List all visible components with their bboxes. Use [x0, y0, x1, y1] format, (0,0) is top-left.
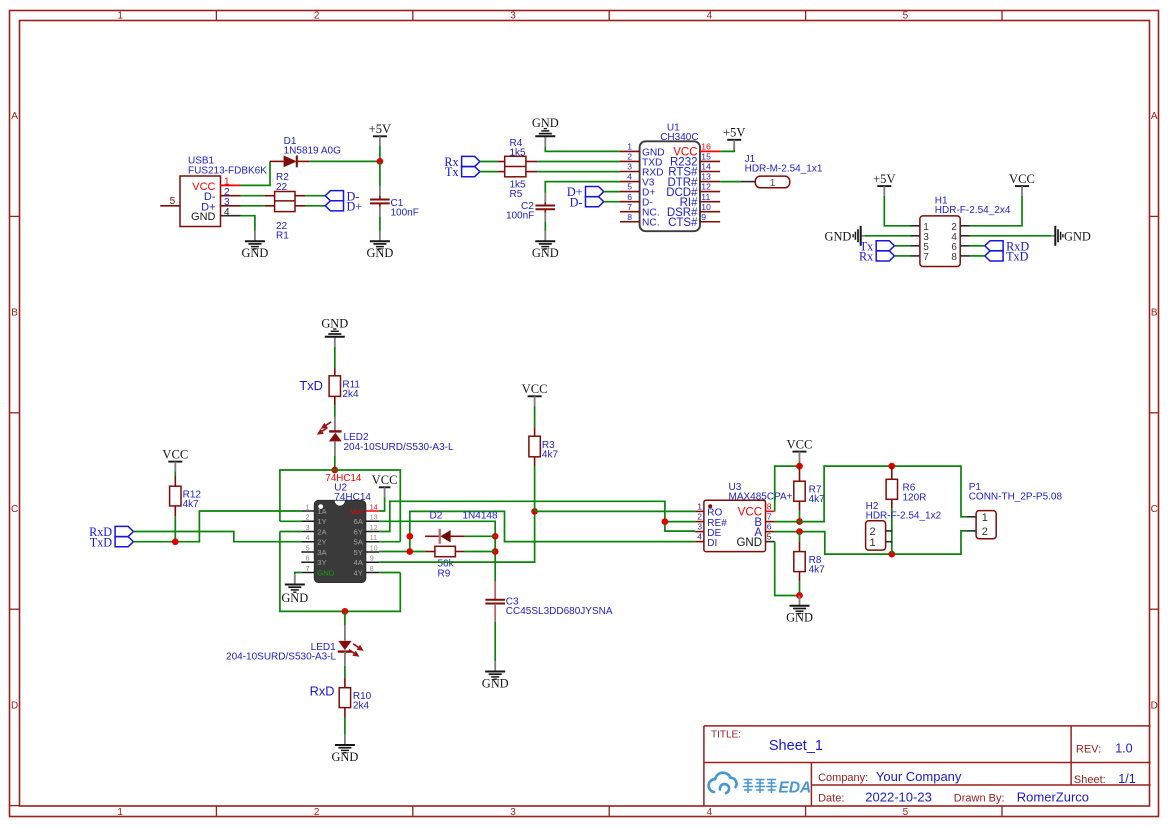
- wire R1 to D+ flag: [305, 205, 325, 207]
- wire USB D- to R2: [241, 195, 265, 197]
- svg-text:8: 8: [951, 252, 957, 263]
- LED LED1 204-10SURD/S530-A3-L: [338, 626, 364, 666]
- svg-text:R1: R1: [276, 231, 289, 242]
- resistor R10 2k4: [339, 677, 371, 717]
- svg-text:1: 1: [627, 142, 632, 152]
- svg-text:GND: GND: [532, 116, 559, 130]
- svg-text:EDA: EDA: [779, 780, 812, 797]
- svg-text:1: 1: [982, 512, 988, 524]
- U2 pin 7 (GND): [301, 566, 334, 577]
- USB1 pin 2 (D-): [221, 187, 241, 198]
- svg-text:GND: GND: [532, 246, 559, 260]
- U3 pin 3 (DE): [695, 522, 721, 539]
- svg-text:7: 7: [627, 202, 632, 212]
- svg-text:R9: R9: [438, 568, 451, 579]
- svg-text:1k5: 1k5: [510, 147, 527, 158]
- wire D+ flag to U1: [604, 191, 620, 193]
- svg-text:GND: GND: [281, 591, 308, 605]
- wire RO line: [535, 510, 696, 512]
- svg-text:1: 1: [306, 504, 310, 511]
- svg-text:GND: GND: [1064, 229, 1091, 243]
- svg-text:DI: DI: [707, 538, 717, 549]
- svg-text:2A: 2A: [317, 527, 327, 536]
- svg-text:D: D: [11, 700, 18, 711]
- junction D2 right: [492, 533, 499, 540]
- U2 pin 8 (4Y): [354, 566, 380, 577]
- U1 pin 6 (D-): [620, 192, 653, 209]
- svg-text:GND: GND: [736, 537, 762, 549]
- svg-text:4: 4: [697, 532, 702, 542]
- svg-text:100nF: 100nF: [506, 211, 534, 222]
- svg-text:VCC: VCC: [372, 473, 398, 487]
- ground GND (H1 left): [825, 226, 865, 246]
- wire Rx flag to H1 pin7: [895, 255, 911, 257]
- resistor pack R2/R1 22: [265, 172, 305, 241]
- svg-text:2: 2: [697, 512, 702, 522]
- wire 5A pin stub wire: [379, 541, 400, 543]
- IC U3 MAX485CPA+: [704, 482, 793, 552]
- svg-text:8: 8: [767, 502, 772, 512]
- svg-text:204-10SURD/S530-A3-L: 204-10SURD/S530-A3-L: [344, 442, 454, 453]
- U2 pin 14 (Vcc): [350, 504, 379, 515]
- wire Rx flag to R4: [480, 161, 498, 163]
- svg-text:GND: GND: [191, 211, 216, 223]
- svg-text:3: 3: [510, 10, 516, 21]
- U1 pin 3 (RXD): [620, 162, 664, 179]
- svg-text:10: 10: [701, 202, 711, 212]
- svg-text:TxD: TxD: [1006, 250, 1029, 264]
- wire D1 cathode to +5V node: [310, 160, 380, 162]
- junction R8/GND: [796, 592, 803, 599]
- junction +5V node: [377, 158, 384, 165]
- U3 pin 6 (A): [754, 522, 774, 539]
- net flag D+ (USB side): [325, 199, 362, 213]
- svg-text:GND: GND: [331, 750, 358, 764]
- svg-text:+5V: +5V: [873, 172, 896, 186]
- svg-text:RomerZurco: RomerZurco: [1017, 789, 1089, 804]
- wire 2A pin stub wire: [280, 531, 301, 533]
- U1 pin 11 (RI#): [680, 192, 721, 209]
- ground GND (R11, inverted): [321, 316, 348, 347]
- net flag D- (USB side): [325, 189, 359, 203]
- svg-text:VCC: VCC: [787, 437, 813, 451]
- U1 pin 7 (NC.): [620, 202, 660, 219]
- svg-text:GND: GND: [241, 246, 268, 260]
- svg-text:2: 2: [306, 515, 310, 522]
- svg-text:8: 8: [370, 566, 374, 573]
- svg-text:6: 6: [306, 556, 310, 563]
- svg-text:7: 7: [923, 252, 928, 263]
- diode D2 1N4148: [425, 510, 498, 544]
- wire R8 to GND node: [799, 581, 801, 595]
- wire U2 Vcc pin14: [379, 497, 385, 511]
- svg-text:120R: 120R: [903, 492, 927, 503]
- wire H1 pin8 to TxD flag: [970, 255, 985, 257]
- svg-text:2: 2: [314, 10, 320, 21]
- svg-text:16: 16: [701, 142, 711, 152]
- svg-text:5: 5: [627, 182, 632, 192]
- ground GND (C2): [532, 231, 559, 260]
- svg-text:MAX485CPA+: MAX485CPA+: [729, 492, 793, 503]
- R9 labels: [438, 559, 455, 580]
- ground GND (U3): [786, 596, 813, 625]
- svg-text:5: 5: [306, 545, 310, 552]
- title block: [704, 726, 1151, 806]
- wire top rail 1Y: [280, 470, 400, 542]
- resistor R3 4k7: [529, 427, 559, 466]
- junction VCC/R7: [796, 463, 803, 470]
- U1 pin 14 (RTS#): [668, 162, 720, 179]
- U2 pin 13 (6A): [354, 515, 380, 526]
- svg-text:7: 7: [767, 512, 772, 522]
- svg-text:HDR-F-2.54_1x2: HDR-F-2.54_1x2: [866, 511, 942, 522]
- power VCC (R3): [522, 382, 548, 406]
- net flag TxD (U2 side): [90, 535, 134, 549]
- wire D2 to right node: [465, 535, 496, 537]
- LED LED2 204-10SURD/S530-A3-L: [317, 417, 342, 456]
- svg-text:CC45SL3DD680JYSNA: CC45SL3DD680JYSNA: [506, 606, 613, 617]
- capacitor C1 100nF: [370, 186, 390, 216]
- svg-text:13: 13: [701, 172, 711, 182]
- wire bottom rail 4Y: [280, 532, 400, 612]
- wire 1Y pin stub wire: [280, 520, 301, 522]
- svg-text:A: A: [1151, 111, 1158, 122]
- wire R4 to U1 TXD: [538, 161, 620, 163]
- svg-text:9: 9: [701, 212, 706, 222]
- svg-text:Sheet_1: Sheet_1: [769, 738, 823, 754]
- wire C2 to GND: [544, 222, 546, 231]
- junction R8/A: [796, 528, 803, 535]
- svg-text:2: 2: [627, 152, 632, 162]
- USB1 pin 3 (D+): [221, 197, 241, 208]
- svg-text:5: 5: [903, 10, 909, 21]
- ground GND (U1 pin1, inverted): [532, 116, 559, 147]
- svg-text:B: B: [11, 308, 18, 319]
- net flag RxD (U2 side): [89, 525, 133, 539]
- junction R7/B: [796, 518, 803, 525]
- wire USB GND pin: [241, 216, 255, 231]
- svg-text:HDR-M-2.54_1x1: HDR-M-2.54_1x1: [745, 164, 823, 175]
- svg-text:4Y: 4Y: [354, 568, 363, 577]
- wire VCC to R12: [174, 471, 176, 475]
- connector H1 HDR-F-2.54_2x4: [910, 196, 1011, 267]
- svg-text:D+: D+: [347, 199, 363, 213]
- wire LED2 to top rail: [334, 456, 336, 470]
- USB1 pin 1 (VCC): [221, 177, 241, 188]
- svg-text:7: 7: [306, 566, 310, 573]
- svg-text:3: 3: [627, 162, 632, 172]
- U1 pin 5 (D+): [620, 182, 655, 199]
- svg-text:C: C: [1151, 504, 1158, 515]
- svg-text:9: 9: [370, 556, 374, 563]
- U1 pin 2 (TXD): [620, 152, 662, 169]
- U1 pin 15 (R232): [670, 152, 720, 169]
- EasyEDA logo: [709, 773, 812, 797]
- svg-text:12: 12: [370, 525, 378, 532]
- svg-text:13: 13: [370, 515, 378, 522]
- svg-text:1N4148: 1N4148: [463, 510, 498, 521]
- junction D2 left: [406, 533, 413, 540]
- wire GND to R11: [334, 347, 336, 368]
- wire 6Y to DE: [379, 501, 695, 531]
- wire USB D+ to R1: [241, 205, 265, 207]
- wire R11 to LED2: [334, 406, 336, 417]
- wire RE# tap: [665, 521, 695, 523]
- svg-text:2: 2: [314, 807, 320, 818]
- svg-text:2Y: 2Y: [317, 538, 326, 547]
- junction R6 top: [888, 463, 895, 470]
- U1 pin 16 (VCC): [673, 142, 720, 159]
- svg-text:CH340C: CH340C: [660, 132, 698, 143]
- wire R5 to U1 RXD: [538, 171, 620, 173]
- net flag Rx (H1 pin7): [859, 250, 895, 264]
- wire left RC vertical to DI: [410, 511, 696, 551]
- wire R6 to A loop: [891, 509, 893, 554]
- junction RE#/DE wire: [662, 518, 669, 525]
- wire R10 to GND: [344, 718, 346, 735]
- power VCC (U2): [372, 473, 398, 497]
- power VCC (R12): [162, 447, 188, 471]
- svg-text:3: 3: [697, 522, 702, 532]
- svg-text:12: 12: [701, 182, 711, 192]
- wire RxD flag to U2 2Y: [133, 532, 301, 542]
- svg-text:C: C: [11, 504, 18, 515]
- svg-text:5: 5: [903, 807, 909, 818]
- wire 6A to RC node: [379, 521, 495, 536]
- U2 pin 12 (6Y): [354, 525, 380, 536]
- power VCC (U3): [787, 437, 813, 461]
- svg-text:1: 1: [117, 10, 123, 21]
- IC U1 CH340C: [640, 122, 700, 231]
- net flag Tx (to R5): [445, 165, 480, 179]
- resistor pack R4/R5 1k5: [497, 138, 537, 200]
- svg-text:VCC: VCC: [162, 447, 188, 461]
- resistor R6 120R: [886, 466, 926, 509]
- svg-text:5: 5: [170, 196, 176, 207]
- svg-text:VCC: VCC: [522, 382, 548, 396]
- wire U2 GND pin7: [295, 573, 302, 575]
- ground GND (USB1): [241, 231, 268, 260]
- U1 pin 4 (V3): [620, 172, 655, 189]
- U3 pin 2 (RE#): [695, 512, 727, 529]
- svg-text:6: 6: [767, 522, 772, 532]
- U2 pin 3 (2A): [301, 525, 327, 536]
- U2 pin 5 (3A): [301, 545, 327, 556]
- wire U3 GND pin5: [775, 542, 800, 596]
- svg-text:1: 1: [697, 502, 702, 512]
- svg-text:GND: GND: [321, 316, 348, 330]
- svg-text:6Y: 6Y: [354, 527, 363, 536]
- net flag Tx (H1 pin5): [860, 239, 895, 253]
- wire R7 to B: [799, 511, 801, 522]
- svg-text:5: 5: [767, 532, 772, 542]
- LED2 labels: [344, 432, 454, 453]
- U2 pin 11 (5A): [354, 535, 380, 546]
- wire H1 pin3 to GND: [865, 235, 911, 237]
- svg-text:2022-10-23: 2022-10-23: [865, 789, 932, 804]
- svg-text:1A: 1A: [317, 507, 327, 516]
- junction R9 left: [406, 548, 413, 555]
- net flag D- (U1 side): [570, 195, 604, 209]
- USB1 pin 4 (GND): [221, 207, 241, 218]
- U1 pin 8 (NC.): [620, 212, 660, 229]
- svg-text:FUS213-FDBK6K: FUS213-FDBK6K: [188, 165, 267, 176]
- U1 pin 9 (CTS#): [668, 212, 720, 229]
- svg-text:1.0: 1.0: [1115, 742, 1132, 756]
- svg-text:2: 2: [982, 526, 988, 538]
- ground GND (C1): [366, 231, 393, 260]
- svg-text:14: 14: [370, 504, 378, 511]
- svg-text:GND: GND: [482, 676, 509, 690]
- svg-text:15: 15: [701, 152, 711, 162]
- U2 pin 2 (1Y): [301, 515, 326, 526]
- resistor R11 2k4: [329, 368, 360, 406]
- svg-text:1Y: 1Y: [317, 517, 326, 526]
- wire +5V to H1 pin1: [884, 196, 910, 226]
- ground GND (H1 right): [1051, 226, 1090, 246]
- wire C3 to GND: [494, 622, 496, 661]
- U1 pin 12 (DCD#): [666, 182, 720, 199]
- USB1 pin 5 (shield): [160, 196, 180, 207]
- svg-text:GND: GND: [825, 229, 852, 243]
- junction R6 bottom: [888, 551, 895, 558]
- svg-text:1: 1: [117, 807, 123, 818]
- wire R2 to D- flag: [305, 195, 325, 197]
- svg-text:1: 1: [870, 537, 876, 549]
- svg-text:2k4: 2k4: [342, 389, 359, 400]
- ground GND (C3): [482, 661, 509, 690]
- wire rail to LED1: [344, 611, 346, 625]
- wire LED1 to R10: [344, 666, 346, 678]
- resistor R7 4k7: [794, 466, 825, 511]
- svg-text:22: 22: [276, 182, 288, 193]
- ground GND (U2): [281, 574, 308, 605]
- U3 pin 8 (VCC): [738, 502, 775, 519]
- svg-text:B: B: [1151, 308, 1158, 319]
- capacitor C2 100nF: [536, 193, 556, 222]
- svg-text:TxD: TxD: [299, 378, 322, 393]
- net flag Rx (to R4): [444, 155, 480, 169]
- svg-text:RxD: RxD: [310, 684, 335, 699]
- wire +5V stem to node: [379, 146, 381, 161]
- wire R9 to right node: [465, 551, 496, 553]
- svg-text:D2: D2: [430, 510, 443, 521]
- svg-text:Tx: Tx: [445, 165, 459, 179]
- net flag RxD (H1 pin6): [985, 239, 1030, 253]
- net flag TxD (H1 pin8): [985, 250, 1029, 264]
- U3 pin 7 (B): [754, 512, 774, 529]
- U2 pin 1 (1A): [301, 504, 327, 515]
- ground GND (R10): [331, 735, 358, 764]
- svg-text:Rx: Rx: [859, 250, 873, 264]
- junction LED1/bottom rail: [342, 608, 349, 615]
- power VCC (H1): [1009, 172, 1035, 196]
- net flag D+ (U1 side): [567, 185, 604, 199]
- svg-text:2k4: 2k4: [353, 701, 370, 712]
- U2 pin 10 (5Y): [354, 545, 380, 556]
- svg-text:Sheet:: Sheet:: [1074, 774, 1106, 786]
- svg-text:4k7: 4k7: [542, 450, 559, 461]
- wire R3 top riser: [534, 466, 536, 511]
- connector H2 HDR-F-2.54_1x2: [866, 501, 942, 550]
- svg-text:D-: D-: [570, 195, 583, 209]
- U2 pin 9 (4A): [354, 556, 380, 567]
- svg-text:Your Company: Your Company: [876, 769, 962, 784]
- svg-text:4k7: 4k7: [183, 499, 200, 510]
- wire 5Y to R9: [379, 551, 425, 553]
- svg-text:11: 11: [370, 535, 377, 542]
- wire A row: [775, 531, 967, 554]
- wire VCC to R3: [534, 406, 536, 427]
- svg-text:GND: GND: [317, 568, 334, 577]
- wire 4A to R3: [379, 511, 534, 562]
- svg-text:CTS#: CTS#: [668, 217, 698, 229]
- junction LED2/top rail: [331, 467, 338, 474]
- wire Tx flag to H1 pin5: [895, 245, 911, 247]
- svg-text:+5V: +5V: [369, 122, 392, 136]
- wire D- flag to U1: [604, 201, 620, 203]
- svg-text:4: 4: [707, 807, 713, 818]
- wire U1 DTR to J1: [720, 181, 740, 183]
- svg-text:4: 4: [707, 10, 713, 21]
- U3 pin 5 (GND): [736, 532, 774, 549]
- svg-text:D: D: [1151, 700, 1158, 711]
- wire B row: [775, 466, 967, 521]
- power +5V (H1): [873, 172, 896, 196]
- capacitor C3 CC45SL3DD680JYSNA: [485, 582, 612, 622]
- wire U1 V3 to C2: [545, 182, 620, 193]
- wire U1 GND pin1: [545, 147, 620, 152]
- wire VCC to H1 pin2: [970, 196, 1022, 226]
- U3 pin 4 (DI): [695, 532, 717, 549]
- LED1 labels: [226, 642, 336, 663]
- wire RC node down to C3: [494, 536, 496, 582]
- svg-text:1: 1: [770, 178, 776, 189]
- svg-text:TxD: TxD: [90, 535, 113, 549]
- svg-text:4: 4: [627, 172, 632, 182]
- svg-text:3A: 3A: [317, 548, 327, 557]
- svg-text:5A: 5A: [354, 538, 364, 547]
- svg-text:4k7: 4k7: [809, 494, 826, 505]
- U3 pin 1 (RO): [695, 502, 722, 519]
- wire C1 to GND: [379, 217, 381, 231]
- wire Tx flag to R5: [480, 171, 498, 173]
- svg-text:NC.: NC.: [642, 218, 660, 229]
- diode D1 1N5819: [270, 136, 341, 168]
- svg-text:4: 4: [224, 207, 230, 218]
- svg-text:Vcc: Vcc: [350, 507, 363, 516]
- wire U3 VCC pin8 riser: [775, 466, 800, 511]
- svg-text:10: 10: [370, 545, 378, 552]
- wire R12 to TxD net: [174, 517, 176, 542]
- wire TxD flag to U2 1A: [133, 511, 301, 542]
- svg-text:Date:: Date:: [818, 793, 844, 805]
- U2 pin 6 (3Y): [301, 556, 326, 567]
- resistor R12 4k7: [170, 475, 202, 516]
- svg-text:14: 14: [701, 162, 711, 172]
- svg-text:3: 3: [306, 525, 310, 532]
- svg-text:6: 6: [627, 192, 632, 202]
- svg-text:A: A: [11, 111, 18, 122]
- svg-text:1N5819 A0G: 1N5819 A0G: [284, 146, 341, 157]
- U1 pin 10 (DSR#): [667, 202, 720, 219]
- wire USB1 VCC to D1 anode: [241, 161, 271, 185]
- wire U1 VCC to +5V: [720, 146, 734, 151]
- svg-text:4: 4: [306, 535, 310, 542]
- svg-text:100nF: 100nF: [391, 208, 419, 219]
- wire H1 pin4 to GND: [970, 235, 1052, 237]
- resistor R9 56k: [425, 546, 465, 556]
